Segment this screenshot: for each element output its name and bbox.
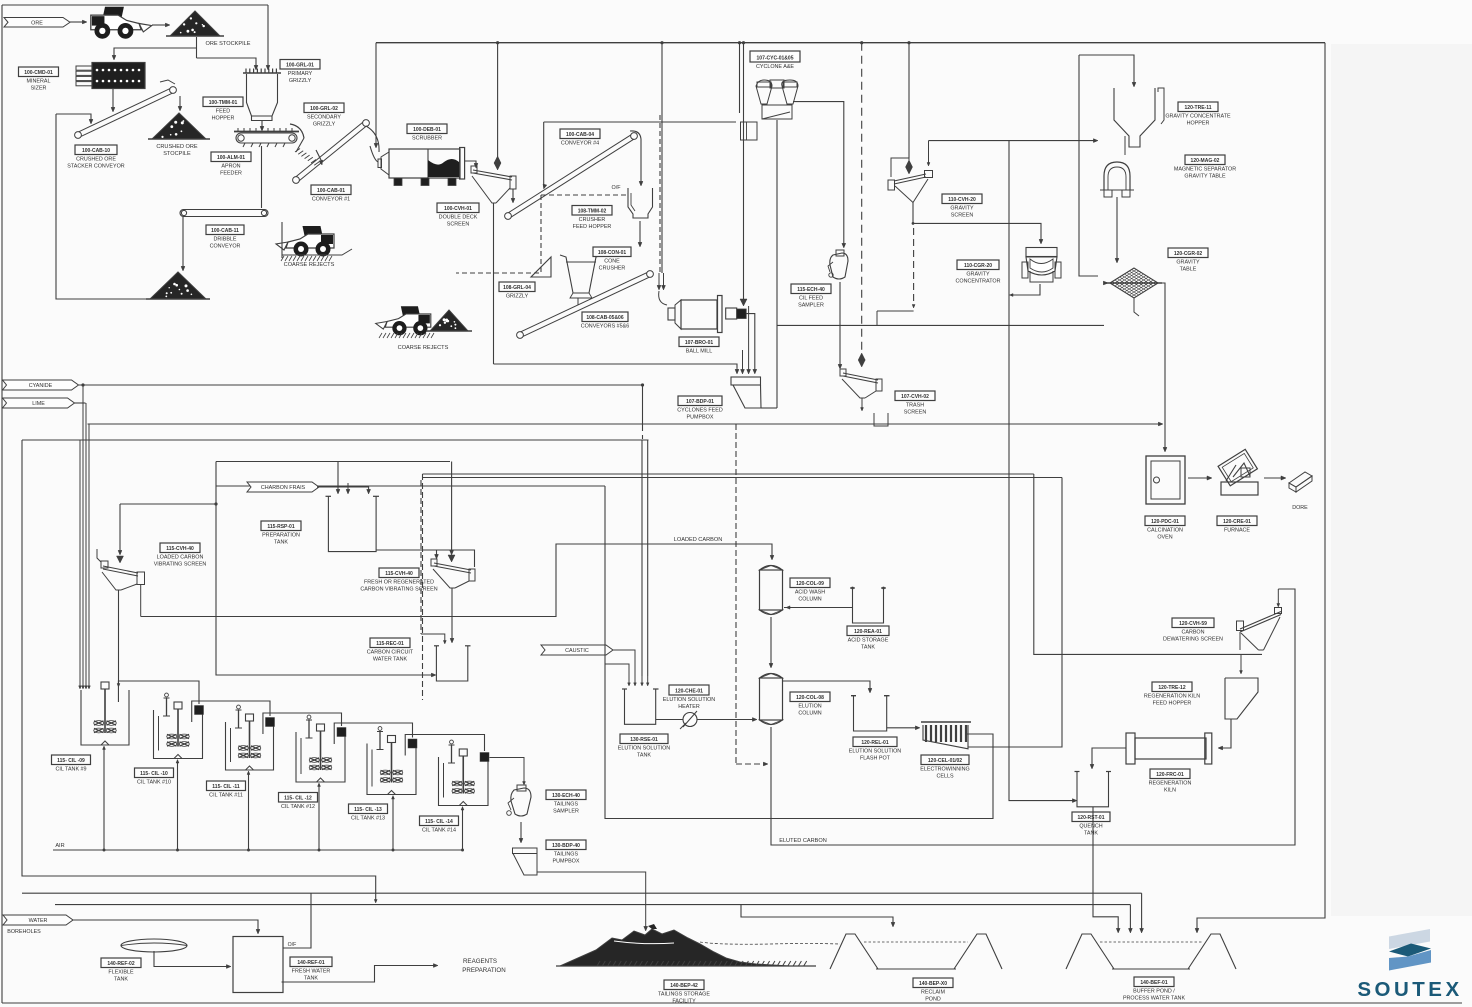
svg-text:140-BEP-X0: 140-BEP-X0	[919, 981, 947, 987]
svg-text:SIZER: SIZER	[31, 86, 47, 92]
svg-text:120-CHE-01: 120-CHE-01	[675, 688, 703, 694]
svg-text:115-RSP-01: 115-RSP-01	[267, 524, 294, 530]
svg-text:COARSE REJECTS: COARSE REJECTS	[398, 345, 449, 351]
svg-text:KILN: KILN	[1164, 788, 1176, 794]
svg-text:100-CAB-10: 100-CAB-10	[82, 148, 110, 154]
svg-text:107-CVH-02: 107-CVH-02	[901, 394, 929, 400]
svg-text:ACID WASH: ACID WASH	[795, 590, 825, 596]
svg-text:100-TMM-01: 100-TMM-01	[209, 100, 238, 106]
svg-text:TABLE: TABLE	[1180, 267, 1197, 273]
svg-text:100-CAB-11: 100-CAB-11	[211, 228, 239, 234]
svg-text:WATER TANK: WATER TANK	[373, 657, 408, 663]
svg-text:COARSE REJECTS: COARSE REJECTS	[284, 262, 335, 268]
svg-text:CRUSHED ORE: CRUSHED ORE	[76, 157, 116, 163]
svg-text:TANK: TANK	[274, 540, 288, 546]
svg-text:100-CMD-01: 100-CMD-01	[24, 70, 53, 76]
svg-text:REGENERATION: REGENERATION	[1149, 781, 1192, 787]
svg-text:SCREEN: SCREEN	[951, 213, 974, 219]
svg-text:BOREHOLES: BOREHOLES	[7, 929, 41, 935]
svg-text:115-CVH-40: 115-CVH-40	[385, 571, 413, 577]
svg-text:107-CYC-01&05: 107-CYC-01&05	[757, 55, 794, 61]
svg-text:PROCESS WATER TANK: PROCESS WATER TANK	[1123, 996, 1186, 1002]
svg-text:ELUTED CARBON: ELUTED CARBON	[779, 838, 827, 844]
svg-text:120-COL-08: 120-COL-08	[796, 695, 824, 701]
svg-text:100-GRL-02: 100-GRL-02	[310, 106, 338, 112]
svg-text:CIL TANK #12: CIL TANK #12	[281, 804, 315, 810]
svg-text:115- CIL -14: 115- CIL -14	[425, 819, 453, 825]
svg-text:ELECTROWINNING: ELECTROWINNING	[920, 767, 969, 773]
svg-text:100-CAB-04: 100-CAB-04	[566, 132, 594, 138]
svg-text:120-CRE-01: 120-CRE-01	[1223, 519, 1251, 525]
svg-text:120-REL-01: 120-REL-01	[861, 740, 888, 746]
svg-text:115- CIL -12: 115- CIL -12	[284, 795, 312, 801]
svg-text:FEED: FEED	[216, 109, 230, 115]
svg-text:108-CAB-05&06: 108-CAB-05&06	[586, 315, 623, 321]
svg-text:REAGENTS: REAGENTS	[463, 958, 497, 965]
svg-text:DOUBLE DECK: DOUBLE DECK	[439, 215, 478, 221]
svg-text:MAGNETIC SEPARATOR: MAGNETIC SEPARATOR	[1174, 167, 1236, 173]
svg-text:CONVEYORS #5&6: CONVEYORS #5&6	[581, 324, 630, 330]
svg-text:AIR: AIR	[55, 843, 64, 849]
svg-text:FEED HOPPER: FEED HOPPER	[1153, 701, 1192, 707]
svg-text:CIL TANK #14: CIL TANK #14	[422, 828, 456, 834]
svg-text:SAMPLER: SAMPLER	[553, 809, 579, 815]
svg-text:110-CVH-20: 110-CVH-20	[948, 197, 976, 203]
svg-text:BUFFER POND /: BUFFER POND /	[1133, 989, 1175, 995]
svg-text:FRESH WATER: FRESH WATER	[292, 969, 331, 975]
svg-text:WATER: WATER	[29, 918, 48, 924]
svg-text:HOPPER: HOPPER	[1187, 121, 1210, 127]
svg-text:DORE: DORE	[1292, 505, 1308, 511]
svg-text:VIBRATING SCREEN: VIBRATING SCREEN	[154, 562, 207, 568]
svg-text:ACID STORAGE: ACID STORAGE	[848, 638, 889, 644]
svg-text:O/F: O/F	[612, 185, 622, 191]
svg-text:SCREEN: SCREEN	[447, 222, 470, 228]
svg-text:O/F: O/F	[288, 942, 297, 948]
svg-text:115- CIL -11: 115- CIL -11	[212, 784, 240, 790]
svg-text:TANK: TANK	[114, 977, 128, 983]
svg-text:SECONDARY: SECONDARY	[307, 115, 341, 121]
svg-text:FACILITY: FACILITY	[672, 999, 696, 1005]
svg-text:CARBON: CARBON	[1181, 630, 1204, 636]
svg-text:100-DEB-01: 100-DEB-01	[413, 127, 441, 133]
svg-text:115- CIL -10: 115- CIL -10	[140, 771, 168, 777]
svg-text:BALL MILL: BALL MILL	[686, 349, 712, 355]
svg-text:ORE: ORE	[31, 20, 43, 26]
svg-text:130-BDP-40: 130-BDP-40	[552, 843, 580, 849]
svg-text:PUMPBOX: PUMPBOX	[687, 415, 714, 421]
svg-text:DRIBBLE: DRIBBLE	[213, 237, 236, 243]
svg-text:GRAVITY: GRAVITY	[1176, 260, 1200, 266]
svg-text:100-GRL-01: 100-GRL-01	[286, 62, 314, 68]
svg-text:100-CAB-01: 100-CAB-01	[317, 188, 345, 194]
svg-text:130-ECH-40: 130-ECH-40	[552, 793, 580, 799]
svg-text:100-ALM-01: 100-ALM-01	[217, 155, 245, 161]
svg-text:GRIZZLY: GRIZZLY	[313, 122, 336, 128]
svg-text:CONVEYOR #1: CONVEYOR #1	[312, 197, 350, 203]
svg-text:115-REC-01: 115-REC-01	[376, 641, 404, 647]
svg-text:TRASH: TRASH	[906, 403, 924, 409]
svg-text:CIL TANK #11: CIL TANK #11	[209, 793, 243, 799]
svg-text:100-CVH-01: 100-CVH-01	[444, 206, 472, 212]
svg-text:ELUTION SOLUTION: ELUTION SOLUTION	[663, 697, 716, 703]
svg-text:120-CGR-02: 120-CGR-02	[1174, 251, 1203, 257]
svg-text:140-REF-02: 140-REF-02	[107, 961, 134, 967]
svg-text:ELUTION SOLUTION: ELUTION SOLUTION	[618, 746, 671, 752]
svg-text:ORE STOCKPILE: ORE STOCKPILE	[206, 41, 251, 47]
svg-text:PUMPBOX: PUMPBOX	[553, 859, 580, 865]
svg-text:107-BDP-01: 107-BDP-01	[686, 399, 714, 405]
svg-text:SCRUBBER: SCRUBBER	[412, 136, 442, 142]
svg-text:HEATER: HEATER	[678, 704, 700, 710]
svg-text:108-CON-01: 108-CON-01	[598, 250, 627, 256]
svg-text:GRAVITY: GRAVITY	[950, 206, 974, 212]
svg-text:115-CVH-40: 115-CVH-40	[166, 546, 194, 552]
svg-text:DEWATERING SCREEN: DEWATERING SCREEN	[1163, 637, 1223, 643]
svg-text:120-TRE-12: 120-TRE-12	[1158, 685, 1185, 691]
svg-text:CIL TANK #10: CIL TANK #10	[137, 780, 171, 786]
svg-text:TANK: TANK	[304, 976, 318, 982]
svg-text:FRESH OR REGENERATED: FRESH OR REGENERATED	[364, 580, 434, 586]
svg-text:CONVEYOR: CONVEYOR	[210, 244, 241, 250]
svg-text:120-CEL-01/02: 120-CEL-01/02	[928, 758, 962, 764]
svg-text:SOUTEX: SOUTEX	[1357, 978, 1462, 1001]
svg-text:OVEN: OVEN	[1157, 535, 1172, 541]
svg-text:110-CGR-20: 110-CGR-20	[964, 263, 992, 269]
svg-text:120-RST-01: 120-RST-01	[1078, 815, 1105, 821]
svg-text:TANK: TANK	[637, 753, 651, 759]
svg-text:ELUTION SOLUTION: ELUTION SOLUTION	[849, 749, 902, 755]
svg-text:FURNACE: FURNACE	[1224, 528, 1250, 534]
svg-text:STOCPILE: STOCPILE	[163, 151, 191, 157]
svg-text:COLUMN: COLUMN	[798, 711, 821, 717]
svg-text:CRUSHED ORE: CRUSHED ORE	[156, 144, 198, 150]
svg-text:LIME: LIME	[32, 401, 45, 407]
svg-text:CALCINATION: CALCINATION	[1147, 528, 1183, 534]
svg-text:TAILINGS STORAGE: TAILINGS STORAGE	[658, 992, 710, 998]
svg-text:120-FRC-01: 120-FRC-01	[1156, 772, 1184, 778]
svg-text:SCREEN: SCREEN	[904, 410, 927, 416]
svg-text:GRAVITY TABLE: GRAVITY TABLE	[1184, 174, 1226, 180]
svg-text:FLEXIBLE: FLEXIBLE	[108, 970, 134, 976]
svg-text:130-RSE-01: 130-RSE-01	[630, 737, 658, 743]
svg-text:MINERAL: MINERAL	[27, 79, 51, 85]
svg-text:CONVEYOR #4: CONVEYOR #4	[561, 141, 599, 147]
svg-text:140-BEP-42: 140-BEP-42	[670, 983, 698, 989]
svg-text:115-ECH-40: 115-ECH-40	[797, 287, 825, 293]
svg-text:120-COL-09: 120-COL-09	[796, 581, 824, 587]
svg-text:108-GRL-04: 108-GRL-04	[503, 285, 531, 291]
svg-text:PREPARATION: PREPARATION	[262, 533, 300, 539]
svg-text:STACKER CONVEYOR: STACKER CONVEYOR	[67, 164, 125, 170]
svg-text:120-MAG-02: 120-MAG-02	[1191, 158, 1220, 164]
svg-text:120-REA-01: 120-REA-01	[854, 629, 882, 635]
svg-text:TAILINGS: TAILINGS	[554, 852, 579, 858]
svg-text:TAILINGS: TAILINGS	[554, 802, 579, 808]
svg-text:LOADED CARBON: LOADED CARBON	[157, 555, 204, 561]
svg-text:CARBON VIBRATING SCREEN: CARBON VIBRATING SCREEN	[360, 587, 437, 593]
svg-text:120-PDC-01: 120-PDC-01	[1151, 519, 1179, 525]
svg-text:CYCLONES FEED: CYCLONES FEED	[677, 408, 723, 414]
svg-text:GRAVITY CONCENTRATE: GRAVITY CONCENTRATE	[1165, 114, 1231, 120]
svg-text:CRUSHER: CRUSHER	[599, 266, 626, 272]
svg-text:HOPPER: HOPPER	[212, 116, 235, 122]
svg-text:CHARBON FRAIS: CHARBON FRAIS	[261, 485, 306, 491]
svg-text:QUENCH: QUENCH	[1079, 824, 1102, 830]
svg-text:GRIZZLY: GRIZZLY	[289, 78, 312, 84]
svg-text:CIL TANK #13: CIL TANK #13	[351, 816, 385, 822]
svg-text:FLASH POT: FLASH POT	[860, 756, 891, 762]
svg-text:FEED HOPPER: FEED HOPPER	[573, 224, 612, 230]
svg-text:CAUSTIC: CAUSTIC	[565, 648, 589, 654]
svg-text:CONCENTRATOR: CONCENTRATOR	[955, 279, 1000, 285]
svg-text:PRIMARY: PRIMARY	[288, 71, 313, 77]
svg-text:CYANIDE: CYANIDE	[29, 383, 53, 389]
svg-text:RECLAIM: RECLAIM	[921, 990, 945, 996]
svg-text:CRUSHER: CRUSHER	[579, 217, 606, 223]
svg-text:107-BRO-01: 107-BRO-01	[685, 340, 714, 346]
svg-text:115- CIL -09: 115- CIL -09	[57, 758, 85, 764]
svg-text:115- CIL -13: 115- CIL -13	[354, 807, 382, 813]
svg-text:ELUTION: ELUTION	[798, 704, 821, 710]
svg-text:COLUMN: COLUMN	[798, 597, 821, 603]
svg-text:TANK: TANK	[1084, 831, 1098, 837]
svg-text:CONE: CONE	[604, 259, 620, 265]
svg-text:LOADED CARBON: LOADED CARBON	[674, 537, 723, 543]
svg-text:REGENERATION KILN: REGENERATION KILN	[1144, 694, 1200, 700]
svg-text:TANK: TANK	[861, 645, 875, 651]
svg-text:140-BEF-01: 140-BEF-01	[1140, 980, 1167, 986]
svg-text:140-REF-01: 140-REF-01	[297, 960, 324, 966]
svg-text:GRIZZLY: GRIZZLY	[506, 294, 529, 300]
svg-text:GRAVITY: GRAVITY	[966, 272, 990, 278]
svg-text:CYCLONE A&E: CYCLONE A&E	[756, 64, 794, 70]
svg-text:POND: POND	[925, 997, 941, 1003]
svg-text:CIL TANK #9: CIL TANK #9	[55, 767, 86, 773]
svg-text:CELLS: CELLS	[936, 774, 953, 780]
svg-text:CIL FEED: CIL FEED	[799, 296, 823, 302]
svg-text:PREPARATION: PREPARATION	[462, 967, 505, 974]
svg-text:APRON: APRON	[221, 164, 240, 170]
svg-text:120-CVH-59: 120-CVH-59	[1179, 621, 1207, 627]
svg-text:108-TMM-02: 108-TMM-02	[578, 208, 607, 214]
svg-text:120-TRE-11: 120-TRE-11	[1185, 105, 1212, 111]
svg-text:SAMPLER: SAMPLER	[798, 303, 824, 309]
svg-text:CARBON CIRCUIT: CARBON CIRCUIT	[367, 650, 414, 656]
svg-text:FEEDER: FEEDER	[220, 171, 242, 177]
